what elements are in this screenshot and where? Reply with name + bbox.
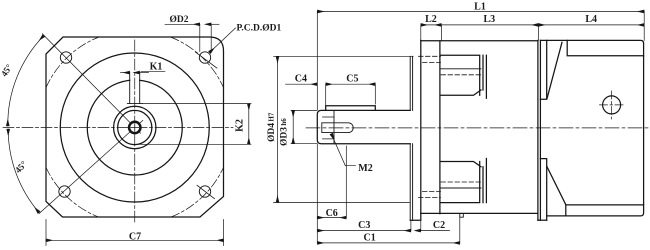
svg-text:45°: 45° <box>0 62 14 78</box>
dimension K1 <box>121 71 166 72</box>
keyway white mask over circle C <box>130 73 139 103</box>
junction foot bottom <box>538 219 547 221</box>
C2 dimension <box>421 220 450 230</box>
svg-text:L3: L3 <box>483 14 495 25</box>
center cross mark <box>131 124 139 132</box>
svg-text:C2: C2 <box>433 220 445 231</box>
L2 L3 L4 chain dimension <box>421 25 644 41</box>
bottom port counterbore line <box>440 187 481 189</box>
side view centerline <box>306 127 648 129</box>
port circle on rear housing <box>603 96 621 114</box>
svg-text:C1: C1 <box>363 233 375 244</box>
C4 C5 dimensions <box>286 84 376 105</box>
slash through bottom-right hole <box>197 185 215 198</box>
svg-text:K1: K1 <box>150 62 163 73</box>
svg-text:C3: C3 <box>358 220 370 231</box>
hidden bolt hole lines bottom (flange area) <box>419 192 441 198</box>
rear housing internal bottom line <box>566 205 644 216</box>
C3 dimension <box>317 220 411 230</box>
svg-text:ØD2: ØD2 <box>170 15 189 25</box>
L1 dimension <box>317 12 644 243</box>
horizontal centerline <box>3 127 233 129</box>
svg-text:45°: 45° <box>13 159 29 175</box>
hub circle B <box>114 106 156 148</box>
diagonal radial line to bottom-left bolt hole <box>39 120 143 213</box>
diagonal radial line to top-left bolt hole <box>42 34 140 133</box>
dimension C7 <box>46 220 224 246</box>
svg-text:ØD4 H7: ØD4 H7 <box>267 112 277 142</box>
shaft outline <box>317 110 410 143</box>
svg-text:L2: L2 <box>425 14 437 25</box>
keyway slot lines <box>127 73 142 104</box>
tapped hole M2 <box>322 123 353 133</box>
bottom notch at C1 extension <box>460 214 464 218</box>
svg-text:K2: K2 <box>235 119 246 132</box>
leader P.C.D. OD1 <box>210 28 236 53</box>
svg-text:P.C.D.ØD1: P.C.D.ØD1 <box>237 24 282 34</box>
hidden bolt hole lines top (flange area) <box>419 56 441 62</box>
top port boss <box>440 55 486 98</box>
svg-text:C7: C7 <box>129 232 141 243</box>
boss circle D (large) <box>60 53 209 202</box>
key on shaft <box>326 106 376 111</box>
vertical centerline <box>134 40 136 222</box>
body top edge <box>421 40 538 42</box>
rear housing outline <box>540 40 643 216</box>
45 deg arc upper <box>8 36 44 126</box>
shaft circle A <box>118 110 152 144</box>
svg-text:L1: L1 <box>474 1 486 12</box>
bottom port boss <box>440 159 486 203</box>
body bottom edge <box>421 212 538 214</box>
dimension OD2 leader <box>165 24 219 51</box>
svg-text:C4: C4 <box>295 73 307 84</box>
flange boss (circle D silhouette) <box>410 56 412 220</box>
rear housing internal top line <box>567 40 643 55</box>
rear housing bottom-left vertical and step <box>540 159 546 221</box>
C1 dimension <box>317 217 460 243</box>
svg-text:M2: M2 <box>358 163 372 174</box>
svg-text:L4: L4 <box>585 14 597 25</box>
shaft bold center circle <box>129 122 140 133</box>
pilot circle C <box>87 80 182 175</box>
top port counterbore line <box>440 68 481 70</box>
thread end line <box>333 110 335 143</box>
top port hidden thread line <box>441 74 481 76</box>
C6 dimension <box>317 146 346 218</box>
slash through top-right hole <box>196 52 217 68</box>
bolt hole top-left <box>60 52 71 63</box>
45 deg arc lower <box>8 129 39 213</box>
bolt hole top-right <box>199 52 210 63</box>
svg-text:C6: C6 <box>326 208 338 219</box>
rear housing top diagonal <box>547 42 562 98</box>
svg-text:C5: C5 <box>346 73 358 84</box>
dimension K2 <box>136 104 251 145</box>
OD3 h6 dimension <box>291 110 317 143</box>
bottom port hidden thread line <box>441 181 481 183</box>
bolt circle PCD dash-dot arcs <box>46 37 224 217</box>
bolt hole bottom-left <box>59 186 70 197</box>
thread minor diameter lines <box>323 117 335 139</box>
rear housing bottom diagonal <box>547 167 566 205</box>
front cover joint line <box>439 41 441 214</box>
port circle crosshairs <box>600 91 625 119</box>
junction double line (housing / rear cover) <box>538 40 541 220</box>
svg-text:ØD3 h6: ØD3 h6 <box>280 118 290 146</box>
OD4 H7 dimension <box>274 56 414 202</box>
flange outline <box>46 37 224 217</box>
bolt hole bottom-right <box>199 186 210 197</box>
M2 leader <box>331 134 355 166</box>
flange plate <box>410 40 421 220</box>
rear housing top-left vertical and step <box>540 40 546 99</box>
